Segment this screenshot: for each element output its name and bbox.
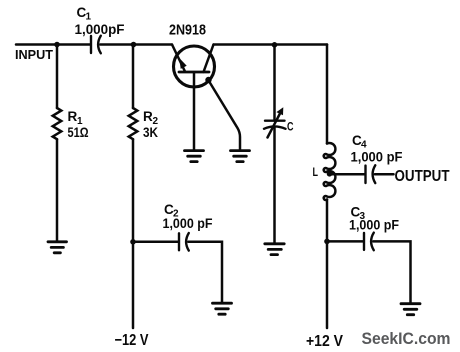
wire C2 to ground [188, 242, 222, 303]
wire C3 to ground [373, 241, 410, 303]
svg-text:1,000 pF: 1,000 pF [349, 216, 399, 232]
svg-text:1,000 pF: 1,000 pF [163, 215, 213, 231]
ground case [231, 151, 250, 162]
inductor L [324, 143, 336, 200]
svg-text:1,000 pF: 1,000 pF [351, 148, 403, 164]
svg-text:1,000pF: 1,000pF [75, 21, 125, 37]
svg-text:51Ω: 51Ω [68, 125, 89, 140]
svg-text:C: C [287, 122, 294, 134]
wire input horizontal to C1 [16, 43, 90, 46]
wire coil bottom down [326, 200, 329, 329]
capacitor C4 [366, 165, 376, 183]
svg-text:SeekIC.com: SeekIC.com [362, 329, 451, 348]
node R2/C2 junction [130, 239, 136, 245]
svg-text:L: L [313, 165, 319, 179]
svg-text:+12 V: +12 V [306, 333, 344, 350]
capacitor C2 [179, 233, 189, 251]
capacitor C1 [91, 36, 101, 54]
resistor R1 [53, 45, 62, 242]
svg-text:R: R [143, 109, 153, 124]
transistor case lead [205, 77, 240, 150]
svg-text:OUTPUT: OUTPUT [395, 168, 450, 185]
ground base [185, 151, 204, 162]
wire C1 to transistor emitter [100, 43, 172, 46]
svg-text:INPUT: INPUT [15, 47, 53, 62]
node C1/R2 junction [131, 42, 137, 48]
node input/R1 junction [54, 42, 60, 48]
ground C3 [401, 304, 420, 315]
resistor R2 [129, 45, 138, 329]
svg-text:R: R [68, 109, 78, 124]
ground C2 [213, 303, 232, 314]
wire top right vertical to coil [326, 45, 329, 144]
transistor Q1 2N918 [172, 45, 215, 151]
wire R2 junction to C2 [133, 241, 178, 244]
capacitor C3 [364, 233, 374, 251]
ground variable capacitor [265, 244, 284, 255]
wire collector to top right corner [214, 43, 328, 46]
node top of variable capacitor [272, 42, 278, 48]
wire coil junction to C3 [327, 240, 363, 243]
svg-text:3K: 3K [143, 125, 158, 140]
ground R1 [48, 242, 67, 253]
node coil/C3 junction [324, 239, 330, 245]
svg-text:−12 V: −12 V [115, 332, 150, 349]
variable capacitor C [264, 45, 286, 243]
svg-text:2N918: 2N918 [169, 22, 206, 39]
node coil tap [327, 171, 333, 177]
wire C4 to output [375, 173, 394, 176]
wire tap to C4 [330, 173, 365, 176]
